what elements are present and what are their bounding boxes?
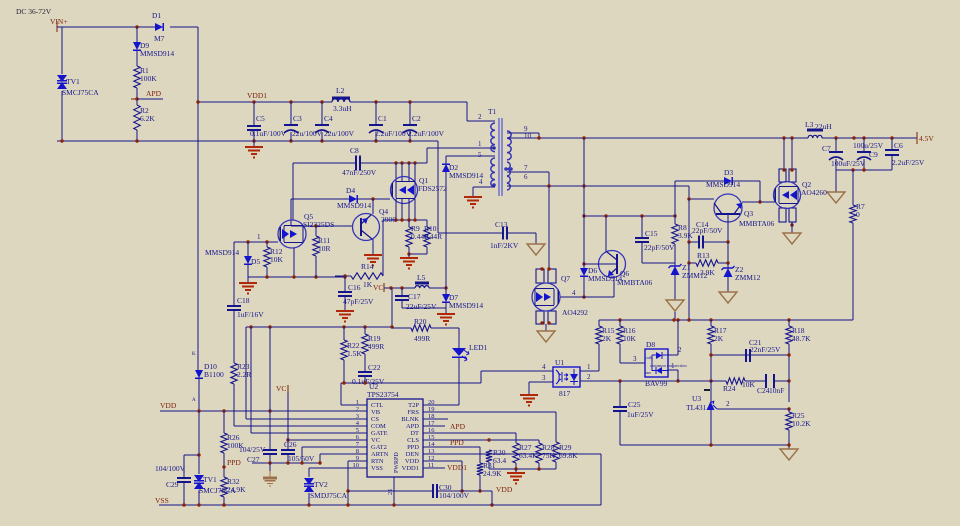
text MMSD914 at D5: [205, 248, 239, 257]
svg-text:22pF/50V: 22pF/50V: [692, 226, 723, 235]
inductor L5: [415, 273, 429, 288]
wire gnd stem C7: [835, 170, 837, 192]
ground at Q5 source: [239, 283, 257, 294]
resistor R16: [617, 326, 637, 344]
wire R2 to bottom rail: [136, 130, 138, 141]
svg-text:SMDJ75CA: SMDJ75CA: [310, 491, 348, 500]
resistor R20: [411, 317, 431, 343]
svg-text:MMSD914: MMSD914: [588, 274, 622, 283]
svg-text:21: 21: [387, 489, 394, 496]
svg-text:2: 2: [356, 406, 359, 413]
wire Q2 drain risers: [784, 138, 792, 169]
capacitor C8: [342, 146, 377, 177]
wire secondary rail: [507, 136, 808, 139]
wire rtn riser to C13: [438, 141, 503, 233]
svg-text:FRS: FRS: [407, 409, 419, 416]
svg-text:C3: C3: [293, 114, 302, 123]
svg-text:SMCJ75CA: SMCJ75CA: [199, 486, 236, 495]
wire aux line: [582, 214, 676, 217]
wire C29 stub: [184, 455, 199, 505]
wire C8 line: [293, 148, 490, 165]
resistor R28: [536, 443, 556, 463]
transistor Q4: [353, 207, 397, 241]
svg-text:B1100: B1100: [204, 370, 224, 379]
wire VSS bus: [159, 503, 601, 506]
wire R10 stub: [426, 220, 428, 254]
wire source gnd line: [248, 275, 347, 278]
net label VSS: [155, 496, 169, 505]
D8 pin numbers: [633, 346, 682, 370]
wire Q6 collector: [605, 216, 607, 252]
svg-text:TV1: TV1: [203, 475, 217, 484]
wire U2 pin10 VSS: [309, 468, 367, 477]
svg-text:C9: C9: [869, 150, 878, 159]
wire R9 R10 bottoms: [407, 252, 427, 255]
svg-text:2.2uF/100V: 2.2uF/100V: [408, 129, 445, 138]
wire VDD C30 line: [348, 489, 492, 505]
capacitor C5: [247, 114, 287, 138]
resistor R9: [406, 224, 429, 247]
wire C7 stub: [835, 138, 837, 170]
svg-text:10K: 10K: [623, 334, 637, 343]
svg-text:C13: C13: [495, 220, 508, 229]
svg-text:1: 1: [587, 363, 591, 371]
wire C15 column: [641, 216, 643, 263]
wire C13 right: [507, 233, 536, 244]
resistor R2: [134, 105, 156, 130]
svg-text:VDD1: VDD1: [447, 463, 467, 472]
svg-text:22uF/25V: 22uF/25V: [406, 302, 437, 311]
wire D7 stub: [445, 288, 447, 294]
svg-text:2: 2: [478, 113, 482, 121]
wire U2 pin15 CLS: [423, 438, 539, 443]
svg-text:TV1: TV1: [66, 77, 80, 86]
svg-text:1K: 1K: [363, 280, 373, 289]
text C26: [284, 440, 315, 463]
svg-text:PWRPD: PWRPD: [394, 452, 400, 473]
resistor R12: [264, 247, 284, 267]
T1 pin 4 wire: [473, 178, 495, 197]
net label PPD left: [227, 458, 241, 467]
wire pin6 rail: [507, 184, 689, 187]
voltage ref U3 TL431: [686, 381, 717, 445]
wire Q5 gate line: [234, 240, 278, 243]
svg-text:ZMM12: ZMM12: [682, 271, 708, 280]
wire gate loop line: [246, 325, 394, 328]
zener Z2: [722, 265, 761, 282]
svg-text:C2: C2: [412, 114, 421, 123]
resistor R22: [341, 340, 363, 360]
T1 pin 2 wire: [467, 113, 495, 121]
wire pin6 rail corner: [688, 186, 690, 199]
resistor R15: [596, 326, 615, 344]
wire Z2 stub: [727, 263, 729, 268]
ground at Z2: [719, 292, 737, 303]
resistor R10: [424, 224, 442, 247]
diode D10: [195, 362, 224, 379]
resistor R26: [221, 433, 244, 453]
capacitor C4: [315, 114, 355, 138]
wire R25 column: [788, 409, 790, 449]
svg-text:PPD: PPD: [227, 458, 241, 467]
svg-text:D1: D1: [152, 11, 161, 20]
svg-text:10: 10: [524, 132, 532, 140]
wire bottom fb line: [620, 443, 791, 446]
svg-text:DC 36-72V: DC 36-72V: [16, 7, 52, 16]
svg-text:1.5K: 1.5K: [347, 349, 362, 358]
wire U2 pin20 T2P: [423, 404, 459, 406]
svg-text:TV2: TV2: [314, 480, 328, 489]
resistor R24 and C24 line: [711, 380, 789, 382]
wire U1 pin3 line: [529, 382, 553, 395]
wire R14 line stubs: [335, 220, 383, 278]
wire earth stem: [269, 463, 271, 471]
capacitor C22: [352, 363, 385, 386]
svg-text:R13: R13: [697, 251, 710, 260]
svg-text:APD: APD: [406, 423, 419, 430]
text MMSD914 at D3: [706, 180, 740, 189]
capacitor C30: [433, 483, 470, 500]
wire C17 column: [401, 288, 403, 308]
capacitor C6: [885, 141, 925, 167]
svg-text:499R: 499R: [368, 342, 384, 351]
wire U1 pin2 line: [580, 379, 791, 382]
text C27: [239, 445, 266, 464]
capacitor C25: [613, 400, 654, 419]
svg-text:2K: 2K: [602, 334, 612, 343]
svg-text:6.2K: 6.2K: [140, 114, 155, 123]
wire primary return rail: [57, 139, 438, 142]
svg-text:3: 3: [542, 374, 546, 382]
svg-text:C15: C15: [645, 229, 658, 238]
svg-text:PPD: PPD: [450, 438, 464, 447]
svg-text:2: 2: [587, 373, 591, 381]
net label VDD right: [496, 485, 513, 494]
wire VC riser: [391, 288, 393, 327]
wire R15 column: [580, 320, 599, 371]
resistor R11: [313, 236, 331, 256]
svg-text:MMSD914: MMSD914: [449, 171, 483, 180]
wire fb top line: [599, 318, 853, 321]
net label VIN+: [50, 17, 68, 32]
svg-text:0: 0: [856, 210, 860, 219]
wire R12 stubs: [266, 242, 268, 277]
wire Z1 gnd stem: [674, 275, 676, 320]
U3 ref line: [717, 400, 791, 411]
svg-text:47pF/25V: 47pF/25V: [343, 297, 374, 306]
svg-text:D8: D8: [646, 340, 655, 349]
svg-text:ano: ano: [645, 370, 651, 375]
svg-text:APD: APD: [450, 422, 466, 431]
svg-text:VDD1: VDD1: [402, 465, 419, 472]
diode D5: [244, 256, 260, 266]
wire U2 pin17 APD: [423, 425, 445, 427]
svg-text:SI2325DS: SI2325DS: [303, 220, 334, 229]
wire U1 pin4 line: [481, 370, 553, 372]
capacitor C14: [692, 220, 723, 249]
svg-text:22pF/50V: 22pF/50V: [644, 243, 675, 252]
svg-text:K: K: [192, 352, 196, 357]
ground at classification: [507, 473, 525, 484]
svg-text:3: 3: [633, 355, 637, 363]
wire R11 stubs: [315, 226, 317, 277]
wire C14 line: [687, 199, 729, 244]
svg-text:CLS: CLS: [407, 437, 419, 444]
svg-text:M7: M7: [154, 34, 165, 43]
wire C17 D7 bottom line: [402, 302, 446, 314]
text R24: [723, 380, 756, 393]
wire VIN+ down to TV1: [61, 27, 63, 74]
svg-text:VB: VB: [371, 409, 381, 416]
ground at C13: [527, 244, 545, 255]
MOSFET Q2: [774, 180, 828, 209]
svg-text:AO4292: AO4292: [562, 308, 588, 317]
svg-text:5: 5: [478, 151, 482, 159]
wire R22 column: [343, 327, 345, 383]
svg-text:APD: APD: [146, 89, 162, 98]
wire D8 pin2: [668, 320, 678, 355]
net label VC bottom: [276, 384, 288, 393]
wire Q2 gate line: [742, 200, 775, 203]
ground at U1 pin3: [520, 395, 538, 406]
TVS TV1 bottom: [194, 475, 236, 495]
svg-text:C18: C18: [237, 296, 250, 305]
wire C4 stub: [321, 102, 323, 141]
wire class gnd stem: [515, 469, 517, 473]
diode D4: [337, 186, 371, 210]
tiny A mark: [192, 398, 196, 403]
resistor R23: [231, 362, 252, 384]
U2 pin21 pad stem: [387, 477, 394, 505]
wire U2 pin1 CTL: [341, 404, 367, 406]
svg-text:2.2R: 2.2R: [237, 370, 251, 379]
MOSFET Q2 package: [779, 168, 796, 226]
wire R9 stub: [408, 220, 410, 254]
wire Q1 source line: [383, 218, 427, 221]
svg-text:VC: VC: [371, 437, 380, 444]
wire Z1 stub: [674, 263, 676, 266]
svg-text:4: 4: [572, 289, 576, 297]
wire R26 column: [222, 411, 225, 477]
wire C2 stub: [409, 102, 411, 141]
wire LED1 cathode: [458, 358, 460, 405]
svg-text:10K: 10K: [742, 380, 756, 389]
svg-text:LED1: LED1: [469, 343, 488, 352]
svg-text:Q3: Q3: [744, 209, 753, 218]
wire ground stem C5: [253, 141, 255, 147]
svg-text:Q7: Q7: [561, 274, 570, 283]
wire D10 bottom: [198, 378, 200, 411]
wire output rail: [822, 136, 917, 139]
resistor R32: [221, 477, 246, 497]
T1 pin 6 wire: [524, 173, 528, 181]
svg-text:CS: CS: [371, 416, 379, 423]
capacitor C1: [369, 114, 412, 138]
svg-text:0.1uF/100V: 0.1uF/100V: [250, 129, 287, 138]
svg-text:10R: 10R: [318, 244, 331, 253]
wire R32 bottom: [223, 497, 225, 505]
svg-text:BLNK: BLNK: [401, 416, 419, 423]
wire R8 column: [674, 181, 676, 263]
wire TV2 bottom: [308, 493, 310, 505]
ground at Q2: [783, 233, 801, 244]
svg-text:C26: C26: [284, 440, 297, 449]
earth ground at C27: [263, 471, 277, 486]
svg-text:2K: 2K: [714, 334, 724, 343]
dual diode D8: [645, 340, 687, 388]
svg-text:MMBTA06: MMBTA06: [617, 278, 652, 287]
wire class bottom line: [489, 467, 556, 470]
svg-text:U1: U1: [555, 358, 564, 367]
text C29: [155, 464, 186, 489]
ground at Q7: [537, 331, 555, 342]
net label VC: [373, 283, 384, 292]
T1 pin 1 wire: [427, 140, 495, 148]
wire Q7 gate line: [560, 296, 614, 298]
ground primary at C5: [245, 147, 263, 158]
wire R17 column: [710, 320, 712, 397]
svg-text:C24: C24: [757, 386, 770, 395]
svg-text:MMSD914: MMSD914: [706, 180, 740, 189]
resistor R29: [553, 442, 578, 462]
wire D4 left riser to Q4 base: [291, 199, 353, 228]
capacitor C16: [338, 283, 374, 306]
resistor R30: [486, 448, 507, 465]
svg-text:104/100V: 104/100V: [155, 464, 186, 473]
capacitor C2: [403, 114, 445, 138]
wire Z2 gnd stem: [727, 277, 729, 292]
svg-text:100K: 100K: [227, 441, 244, 450]
svg-text:T2P: T2P: [408, 402, 419, 409]
svg-text:U3: U3: [692, 394, 701, 403]
net label APD pin17: [450, 422, 466, 431]
svg-text:817: 817: [559, 389, 571, 398]
wire C27 column: [269, 327, 271, 463]
wire VIN+ top rail: [57, 25, 198, 28]
resistor R13: [696, 251, 718, 277]
svg-text:cath: cath: [645, 355, 653, 360]
svg-text:FDS2572: FDS2572: [418, 184, 447, 193]
svg-text:48.7K: 48.7K: [792, 334, 811, 343]
wire CTL line: [341, 371, 481, 405]
pin label 1 Q5 gate: [257, 233, 261, 241]
svg-text:69.8K: 69.8K: [559, 451, 578, 460]
svg-text:L3: L3: [805, 120, 814, 129]
wire C15 Z1 line: [642, 262, 675, 264]
IC U2 TPS23754: [353, 382, 436, 477]
wire Q4 collector: [372, 239, 374, 255]
net label PPD pin14: [450, 438, 464, 447]
resistor R18: [786, 326, 811, 344]
T1 pin 7 wire: [507, 164, 549, 186]
wire U2 pin14 PPD: [423, 447, 480, 463]
capacitor C13: [490, 220, 519, 250]
svg-text:VDD1: VDD1: [247, 91, 267, 100]
svg-text:R14: R14: [361, 262, 374, 271]
svg-text:ARTN: ARTN: [371, 451, 389, 458]
svg-text:R20: R20: [414, 317, 427, 326]
inductor L3: [805, 120, 832, 138]
resistor R24: [726, 378, 745, 384]
wire R13 left down: [688, 263, 690, 320]
svg-text:VDD: VDD: [405, 458, 419, 465]
transistor Q3: [714, 194, 774, 228]
T1 pin 10 wire: [524, 132, 532, 140]
svg-text:22uH: 22uH: [815, 122, 832, 131]
svg-text:VSS: VSS: [371, 465, 383, 472]
text MMBTA06 at Q6: [617, 278, 652, 287]
net label 4.5V: [917, 132, 934, 144]
svg-text:C7: C7: [822, 144, 831, 153]
svg-text:3.3uH: 3.3uH: [333, 104, 352, 113]
capacitor C27: [263, 450, 277, 454]
wire C3 stub: [290, 102, 292, 141]
svg-text:MMBTA06: MMBTA06: [739, 219, 774, 228]
svg-text:1uF/16V: 1uF/16V: [237, 310, 264, 319]
svg-text:VIN+: VIN+: [50, 17, 68, 26]
wire R20 line: [392, 328, 459, 348]
svg-text:COM: COM: [371, 423, 386, 430]
svg-text:VC: VC: [276, 384, 286, 393]
wire U2 pin2 VB: [160, 409, 367, 412]
svg-text:2: 2: [678, 346, 682, 354]
wire Q6 base: [582, 262, 600, 265]
wire Q5 source: [293, 248, 295, 277]
svg-text:47nF/250V: 47nF/250V: [342, 168, 377, 177]
svg-text:C17: C17: [408, 292, 421, 301]
svg-text:C8: C8: [350, 146, 359, 155]
svg-text:C25: C25: [628, 400, 641, 409]
svg-text:R24: R24: [723, 384, 736, 393]
capacitor C29: [177, 478, 191, 482]
svg-text:RTN: RTN: [371, 458, 384, 465]
svg-text:10.2K: 10.2K: [792, 419, 811, 428]
diode D6: [580, 266, 622, 283]
T1 pin 9 wire: [507, 125, 539, 138]
wire U2 pin4 COM: [234, 425, 367, 427]
ground at R9 R10: [400, 258, 418, 269]
transistor Q6: [599, 251, 630, 279]
wire TV1 to bottom rail: [61, 91, 63, 141]
svg-text:22nF/25V: 22nF/25V: [750, 345, 781, 354]
wire C6 stub: [891, 138, 893, 170]
resistor R31: [477, 461, 502, 478]
text AO4292 and pin4: [562, 289, 588, 317]
MOSFET Q5: [278, 212, 334, 248]
svg-text:A: A: [192, 398, 196, 403]
wire D1 to VDD1 riser: [197, 27, 199, 370]
svg-text:1: 1: [257, 233, 261, 241]
MOSFET Q7: [532, 274, 570, 311]
wire R16 column: [620, 320, 645, 363]
net label VDD1: [247, 91, 267, 100]
svg-text:1uF/25V: 1uF/25V: [627, 410, 654, 419]
wire R28 bottom: [538, 463, 540, 469]
diode D7: [442, 293, 483, 310]
zener Z1: [669, 263, 708, 280]
diode D9: [133, 41, 174, 58]
svg-text:4: 4: [542, 363, 546, 371]
MOSFET Q1 pins bottom: [396, 199, 415, 220]
capacitor C17: [395, 292, 437, 311]
wire U2 pin5 GATE: [251, 327, 367, 433]
wire U2 pin16 DT: [423, 433, 516, 443]
svg-text:3.9K: 3.9K: [678, 231, 693, 240]
wire R27 bottom: [515, 463, 517, 469]
svg-text:PPD: PPD: [407, 444, 419, 451]
svg-text:MMSD914: MMSD914: [449, 301, 483, 310]
wire C18 column: [233, 242, 235, 426]
